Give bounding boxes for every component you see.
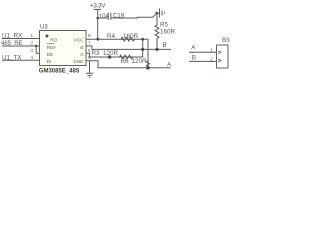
svg-text:160R: 160R xyxy=(123,33,139,40)
resistor R3 zigzag xyxy=(120,55,133,59)
svg-text:GND: GND xyxy=(73,59,84,64)
svg-text:B: B xyxy=(192,54,196,61)
wire +3.3V vertical xyxy=(97,9,99,39)
node gnd top dot xyxy=(155,12,158,15)
svg-text:1: 1 xyxy=(31,33,34,38)
capacitor C19 plates xyxy=(108,13,111,20)
wire U1_RX to RO pin 1 xyxy=(2,38,40,40)
node VCC junction dot xyxy=(96,38,99,41)
svg-text:160R: 160R xyxy=(160,29,176,36)
power bar +3.3V xyxy=(94,8,102,10)
svg-text:+3.3V: +3.3V xyxy=(90,3,106,10)
svg-text:DE: DE xyxy=(47,52,53,57)
IC U3 GM3085E RS-485 transceiver body xyxy=(40,31,87,66)
svg-text:B: B xyxy=(80,45,83,50)
node A line dot xyxy=(108,55,111,58)
wire GND pin stub xyxy=(86,61,171,68)
svg-text:120R: 120R xyxy=(132,58,148,65)
wire cap to ground top xyxy=(111,13,160,18)
svg-text:R4: R4 xyxy=(107,33,116,40)
svg-text:120R: 120R xyxy=(103,50,119,57)
wire U1_TX to DI pin 4 xyxy=(2,59,40,61)
wire RE-DE vertical link xyxy=(36,46,39,53)
svg-text:A: A xyxy=(191,44,196,51)
svg-text:U1_RX: U1_RX xyxy=(2,32,23,39)
svg-text:7: 7 xyxy=(88,41,91,46)
resistor R4 zigzag xyxy=(121,37,134,41)
svg-text:GM3085E_485: GM3085E_485 xyxy=(39,69,80,75)
pin RO bullet xyxy=(46,35,49,38)
svg-text:8: 8 xyxy=(88,33,91,38)
node RE link dot xyxy=(35,45,37,47)
ground top-right sideways xyxy=(160,9,165,18)
svg-text:A: A xyxy=(167,62,172,69)
svg-text:R5: R5 xyxy=(160,22,169,29)
svg-text:B: B xyxy=(163,42,167,49)
wire B line xyxy=(86,46,171,49)
wire 485_RE to RE pin 2 xyxy=(2,45,40,47)
svg-text:RE#: RE# xyxy=(47,45,56,50)
svg-text:C19: C19 xyxy=(113,12,125,19)
svg-text:4: 4 xyxy=(31,55,34,60)
resistor R6 vertical on V2 xyxy=(147,49,150,68)
connector pin marks xyxy=(218,51,221,62)
svg-text:U3: U3 xyxy=(40,25,48,31)
svg-text:104: 104 xyxy=(99,13,110,20)
wire V1 pullup A xyxy=(142,39,144,57)
svg-text:VCC: VCC xyxy=(74,37,84,42)
node B line dot R5 xyxy=(155,48,158,51)
svg-text:R6: R6 xyxy=(121,58,130,65)
ground chip bottom xyxy=(86,61,93,77)
wire A to connector pin 1 xyxy=(189,51,217,53)
pin RE overbar xyxy=(47,43,55,45)
svg-text:U1_TX: U1_TX xyxy=(2,54,22,61)
wire VCC pin 8 stub and R4 line xyxy=(86,39,148,68)
connector B3 box xyxy=(217,45,229,68)
svg-text:2: 2 xyxy=(210,57,213,62)
resistor R5 vertical xyxy=(155,13,159,49)
svg-text:3: 3 xyxy=(31,48,34,53)
svg-text:R3: R3 xyxy=(92,50,101,57)
svg-text:B3: B3 xyxy=(222,37,230,44)
wire B to connector pin 2 xyxy=(189,60,217,62)
svg-text:2: 2 xyxy=(31,41,34,46)
svg-text:1: 1 xyxy=(210,48,213,53)
node H5 gnd dot xyxy=(146,66,150,70)
wire A pin to R3 line xyxy=(86,53,143,57)
svg-text:RO: RO xyxy=(50,37,57,42)
node B line dot 1 xyxy=(141,48,144,51)
node R4 out dot xyxy=(141,38,144,41)
svg-text:485_RE: 485_RE xyxy=(1,40,23,47)
svg-text:DI: DI xyxy=(47,59,52,64)
wire capacitor branch xyxy=(98,17,109,19)
node cap branch dot xyxy=(96,17,99,20)
